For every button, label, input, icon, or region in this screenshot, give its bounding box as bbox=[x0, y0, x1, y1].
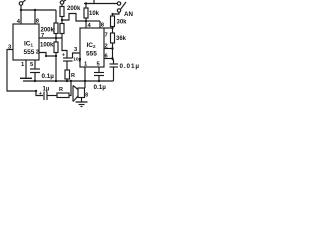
wire jog to supply bbox=[62, 14, 86, 22]
switch AN pushbutton bbox=[117, 2, 126, 12]
ground speaker bbox=[76, 102, 88, 107]
wire bbox=[69, 81, 71, 96]
resistor R 100k bbox=[54, 42, 58, 53]
capacitor C 0.1u under IC2 bbox=[94, 73, 104, 76]
resistor R vertical bbox=[65, 70, 70, 79]
wire bbox=[85, 4, 87, 9]
node junction bbox=[34, 80, 36, 82]
wire bbox=[34, 10, 36, 24]
node junction bbox=[85, 2, 87, 4]
node junction bbox=[55, 37, 57, 39]
node junction bbox=[45, 55, 47, 57]
svg-text:555: 555 bbox=[24, 49, 35, 56]
wire bbox=[34, 73, 36, 82]
wire bbox=[112, 43, 114, 60]
wire pin3 IC1 bbox=[7, 50, 43, 96]
svg-text:3: 3 bbox=[74, 47, 78, 53]
wire bbox=[98, 76, 100, 82]
ground bbox=[20, 77, 32, 79]
node junction bbox=[70, 80, 72, 82]
wire to IC2 corner bbox=[104, 27, 113, 29]
svg-text:R: R bbox=[59, 87, 63, 93]
wire bbox=[21, 9, 56, 11]
wire pin5 IC1 bbox=[34, 60, 36, 69]
resistor R 200k top bbox=[60, 7, 64, 17]
svg-text:0.1µ: 0.1µ bbox=[42, 73, 55, 80]
svg-text:200k: 200k bbox=[67, 6, 81, 12]
wire bbox=[113, 67, 115, 81]
svg-text:10µ: 10µ bbox=[73, 57, 81, 63]
svg-text:0.1µ: 0.1µ bbox=[94, 84, 107, 91]
wire pin7 IC1 bbox=[39, 37, 62, 39]
wire bbox=[81, 98, 83, 103]
wire pin5 IC2 bbox=[98, 67, 100, 73]
node junction bbox=[20, 9, 22, 11]
node junction bbox=[111, 57, 113, 59]
wire bbox=[66, 79, 68, 81]
wire ground rail bbox=[23, 80, 114, 82]
node terminal with potentiometer 200k bbox=[60, 0, 66, 4]
svg-text:2: 2 bbox=[36, 50, 39, 56]
capacitor C 0.1u under IC1 bbox=[30, 69, 40, 73]
resistor R horizontal bbox=[57, 93, 69, 98]
svg-text:10k: 10k bbox=[89, 11, 100, 17]
svg-text:IC2: IC2 bbox=[87, 42, 97, 49]
node terminal top-left bbox=[19, 0, 25, 5]
wire bbox=[61, 4, 63, 6]
svg-text:1: 1 bbox=[21, 62, 25, 68]
wire switch to resistor bbox=[113, 12, 120, 16]
node junction bbox=[111, 27, 113, 29]
svg-text:200k: 200k bbox=[41, 28, 55, 34]
wire pin1 IC2 to speaker bbox=[84, 67, 86, 88]
wire stub bbox=[93, 0, 95, 4]
svg-text:8: 8 bbox=[85, 93, 88, 99]
wire pin8 IC2 bbox=[99, 21, 101, 28]
op-amp U2 IC2 555 box bbox=[80, 28, 104, 67]
node junction bbox=[98, 80, 100, 82]
wire bbox=[61, 17, 63, 24]
svg-text:100k: 100k bbox=[40, 43, 54, 49]
wire bbox=[86, 20, 100, 22]
svg-text:R: R bbox=[71, 73, 75, 79]
svg-text:30k: 30k bbox=[117, 20, 128, 26]
wire pin1 IC1 bbox=[25, 60, 27, 78]
wire pin6 IC2 bbox=[104, 58, 113, 60]
wire pins 2,6 IC1 bbox=[39, 53, 56, 57]
svg-text:36k: 36k bbox=[116, 36, 127, 42]
wire bbox=[66, 61, 68, 70]
node junction bbox=[55, 80, 57, 82]
wire bbox=[55, 10, 57, 23]
resistor R 200k lower bbox=[60, 24, 64, 34]
node junction bbox=[35, 90, 37, 92]
node junction bbox=[111, 13, 113, 15]
resistor R 36k bbox=[111, 33, 115, 43]
wire bbox=[85, 18, 87, 28]
wire jog bbox=[113, 60, 114, 64]
svg-text:2: 2 bbox=[105, 44, 108, 50]
resistor R 200k upper-middle bbox=[54, 23, 58, 34]
svg-text:0.01µ: 0.01µ bbox=[120, 63, 140, 70]
node junction bbox=[55, 55, 57, 57]
wire pin3 IC2 bbox=[73, 53, 81, 58]
wire pin2 IC2 bbox=[104, 48, 113, 50]
svg-text:AN: AN bbox=[124, 11, 133, 18]
svg-text:555: 555 bbox=[86, 51, 97, 58]
node junction bbox=[84, 80, 86, 82]
svg-text:5: 5 bbox=[30, 62, 34, 68]
node junction bbox=[66, 80, 68, 82]
resistor R 30k bbox=[111, 16, 115, 27]
capacitor C 1u electrolytic bbox=[39, 87, 50, 101]
svg-text:7: 7 bbox=[41, 33, 44, 39]
wire bbox=[62, 34, 67, 59]
wire bbox=[55, 53, 57, 82]
speaker Y bbox=[73, 86, 88, 102]
node junction bbox=[34, 9, 36, 11]
svg-text:7: 7 bbox=[105, 33, 108, 39]
resistor R 10k bbox=[84, 8, 88, 18]
node junction bbox=[85, 20, 87, 22]
wire bbox=[20, 5, 22, 24]
svg-text:1µ: 1µ bbox=[43, 87, 50, 93]
node junction bbox=[111, 47, 113, 49]
op-amp U1 IC1 555 box bbox=[13, 24, 39, 60]
wire bbox=[47, 95, 57, 97]
wire top rail right bbox=[84, 3, 117, 5]
capacitor C 10u electrolytic bbox=[62, 53, 82, 63]
wire bbox=[55, 34, 57, 43]
wire bbox=[112, 27, 114, 34]
svg-text:+: + bbox=[62, 53, 65, 59]
node junction bbox=[61, 19, 63, 21]
svg-text:IC1: IC1 bbox=[24, 41, 34, 48]
capacitor C 0.01u bbox=[110, 64, 119, 67]
